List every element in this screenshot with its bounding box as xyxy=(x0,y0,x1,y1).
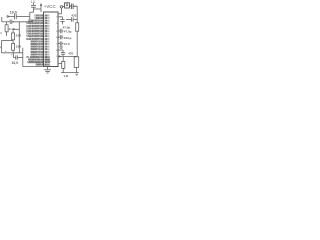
IC U1 xyxy=(44,12,59,67)
wire to ground rail xyxy=(23,66,48,68)
svg-text:47,0µ: 47,0µ xyxy=(64,30,72,34)
svg-text:1: 1 xyxy=(0,31,2,35)
wire input bus xyxy=(12,21,33,23)
wire vertical bus xyxy=(18,22,20,53)
svg-text:100,µ: 100,µ xyxy=(64,36,72,40)
node junction xyxy=(13,21,14,22)
ground right xyxy=(76,74,78,75)
svg-text:10,0: 10,0 xyxy=(12,61,19,65)
capacitor C2 xyxy=(2,17,12,24)
wire bottom right xyxy=(61,72,79,74)
IC U1 right pin numbers xyxy=(56,17,58,59)
wire right vertical xyxy=(22,48,24,67)
svg-text:1,R: 1,R xyxy=(64,74,70,78)
wire input drop xyxy=(30,12,34,22)
resistor R5 xyxy=(62,56,65,72)
capacitor C6 100 xyxy=(58,35,63,39)
svg-text:470: 470 xyxy=(68,51,73,55)
svg-text:47,0: 47,0 xyxy=(64,42,70,46)
svg-text:433: 433 xyxy=(71,14,76,18)
wire pin stub right xyxy=(58,63,62,65)
svg-text:+: + xyxy=(5,49,7,53)
capacitor C7 470 xyxy=(58,50,65,56)
capacitor C10 crystal load xyxy=(66,17,77,22)
capacitor C9 47,0 xyxy=(58,41,63,45)
IC U1 pin label rows shading xyxy=(28,15,43,66)
speaker LS1 xyxy=(74,57,79,73)
svg-text:GND 9: GND 9 xyxy=(36,64,44,67)
capacitor C1 input xyxy=(7,14,30,19)
node A xyxy=(60,6,62,8)
crystal Y1 xyxy=(63,3,78,9)
resistor R1 9,1K xyxy=(5,22,8,36)
svg-text:10,0: 10,0 xyxy=(10,11,17,15)
power +VCC xyxy=(34,3,42,12)
capacitor C5 47,0 xyxy=(58,29,63,33)
wire bottom left xyxy=(1,52,22,54)
resistor R3 51K xyxy=(12,41,15,53)
IC U1 inner pin text shading xyxy=(45,15,50,66)
resistor R2 51K xyxy=(12,29,20,40)
capacitor C3 10,0 xyxy=(13,53,22,60)
svg-text:+VCC: +VCC xyxy=(44,4,56,9)
wire output xyxy=(58,55,77,57)
ground below IC xyxy=(44,67,51,74)
resistor R4 xyxy=(76,23,79,57)
capacitor C4 xyxy=(58,17,65,25)
IC U1 bottom dense rows xyxy=(45,56,51,65)
wire right rail xyxy=(76,6,78,23)
capacitor C8 1,0 xyxy=(31,3,36,12)
svg-text:2: 2 xyxy=(0,45,2,49)
ground right column xyxy=(59,46,62,49)
IC U1 pin function labels xyxy=(26,14,44,66)
svg-text:1,0: 1,0 xyxy=(30,0,35,4)
IC U1 pin names xyxy=(45,14,51,66)
wire junction R2 R3 xyxy=(1,41,13,53)
wire crystal to IC xyxy=(58,8,61,14)
